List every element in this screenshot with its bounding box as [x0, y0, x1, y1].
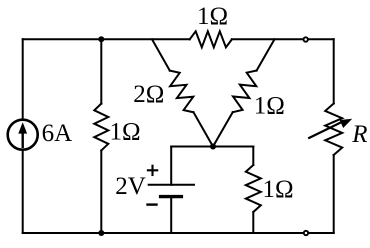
- wire: left rail above current source: [22, 39, 24, 119]
- wire: right rail above rheostat: [333, 39, 335, 103]
- junction node (delta bottom vertex): [210, 144, 216, 150]
- resistor R2 1Ω (top horizontal): [190, 3, 232, 48]
- resistor R5 1Ω (bottom middle branch): [246, 147, 294, 234]
- minus sign: [148, 203, 157, 205]
- resistor R4 1Ω (right diagonal of delta): [213, 39, 285, 146]
- wire: middle horizontal (battery branch to bottom resistor branch): [171, 146, 253, 148]
- svg-text:1Ω: 1Ω: [197, 3, 228, 30]
- voltage source V1 2V (battery): [115, 147, 194, 234]
- svg-text:2V: 2V: [115, 173, 146, 200]
- wire: right rail below rheostat: [333, 155, 335, 233]
- svg-text:R: R: [351, 121, 367, 148]
- svg-text:1Ω: 1Ω: [263, 176, 294, 203]
- rheostat R (variable resistor, right rail): [309, 104, 367, 156]
- current source I1 6A: [8, 120, 72, 150]
- wire: left rail below current source: [22, 150, 24, 233]
- junction node (top of R1): [98, 36, 104, 42]
- svg-text:1Ω: 1Ω: [254, 93, 285, 120]
- wire: top rail, left corner to top resistor: [23, 38, 190, 40]
- terminal (top, open circle): [304, 37, 308, 41]
- battery positive plate: [149, 184, 194, 186]
- resistor R3 2Ω (left diagonal of delta): [133, 39, 213, 146]
- junction node (bottom of battery branch rail): [98, 230, 104, 236]
- rheostat arrow: [309, 122, 342, 138]
- battery negative plate: [161, 195, 182, 198]
- wire: bottom rail: [23, 232, 334, 234]
- svg-text:1Ω: 1Ω: [110, 118, 141, 145]
- resistor R1 1Ω (left vertical branch): [94, 39, 140, 233]
- plus sign: [148, 166, 157, 175]
- wire: top rail, top resistor to top-right corner: [232, 38, 334, 40]
- terminal (bottom, open circle): [304, 231, 308, 235]
- svg-text:2Ω: 2Ω: [133, 81, 164, 108]
- svg-text:6A: 6A: [42, 120, 73, 147]
